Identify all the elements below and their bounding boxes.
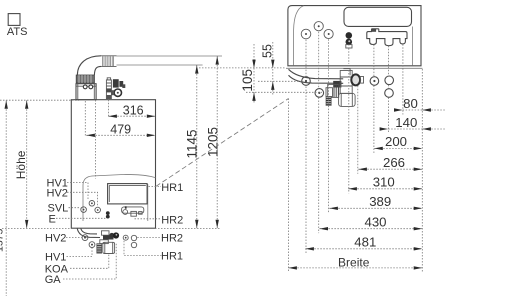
- dimension 200: [374, 147, 422, 149]
- svg-text:HR2: HR2: [161, 214, 183, 226]
- bottom view inner rounded rect: [344, 7, 412, 26]
- slider control: [122, 206, 144, 216]
- svg-text:HV2: HV2: [47, 187, 68, 199]
- svg-text:481: 481: [354, 235, 376, 250]
- svg-text:266: 266: [383, 155, 405, 170]
- small bit right: [360, 77, 363, 84]
- 479 extension line (flue centre): [84, 101, 86, 136]
- svg-text:140: 140: [395, 115, 417, 130]
- dimension 80: [403, 109, 446, 111]
- display window: [108, 184, 148, 204]
- bottom valve cluster: [100, 231, 119, 244]
- 316 extension line (valve centre): [108, 100, 110, 118]
- dimension line 1205: [216, 56, 218, 228]
- ribbed stub bottom view: [326, 97, 331, 106]
- leader SVL: [69, 207, 81, 209]
- projection diagonal to bottom view: [156, 99, 289, 187]
- svg-text:HR2: HR2: [161, 233, 183, 245]
- flue bottom projection line (1145 ref): [117, 64, 203, 66]
- circle 140b conn: [385, 89, 394, 98]
- left datum extension of bottom view: [199, 67, 286, 69]
- leader HV1: [67, 183, 88, 201]
- 105 dimension: [253, 44, 255, 103]
- mounting bracket top bump: [372, 29, 376, 32]
- bottom reference line: [2, 228, 221, 230]
- leader HR1 bottom: [124, 241, 162, 256]
- top valve group: white cylinder (316 ref): [106, 78, 111, 99]
- dimension 266: [358, 168, 422, 170]
- svg-text:389: 389: [369, 194, 391, 209]
- dimension 140: [388, 128, 446, 130]
- flue collar hatched band: [76, 75, 94, 83]
- flue corrugated section: [101, 56, 117, 67]
- svg-text:310: 310: [373, 175, 395, 190]
- leader HV2: [67, 192, 98, 206]
- mounting bracket: [367, 29, 407, 46]
- circle HR1 bottom: [123, 235, 128, 240]
- flue elbow: [77, 56, 101, 75]
- flue fan box: [76, 84, 96, 100]
- 55 dimension: [272, 42, 274, 95]
- leader HV2 bottom: [66, 236, 82, 238]
- svg-text:ATS: ATS: [7, 26, 28, 38]
- circle 200 conn: [370, 77, 379, 86]
- circle 430 gas: [315, 89, 324, 98]
- leader E: [56, 217, 105, 219]
- pipe circle 481: [302, 77, 311, 86]
- circle HR2 bottom: [131, 235, 136, 240]
- leader KOA: [70, 254, 109, 268]
- gas stub ribbed: [97, 244, 102, 254]
- svg-text:316: 316: [123, 104, 144, 118]
- svg-text:1205: 1205: [205, 127, 220, 157]
- dimension line 1145: [196, 65, 198, 228]
- dark cylinder 266 conn: [351, 74, 360, 85]
- extension line flue box right edge: [95, 100, 97, 179]
- leader HR2: [135, 218, 162, 220]
- bottom pipe elbow: [77, 228, 100, 237]
- dimension 430: [319, 228, 422, 230]
- left extension of bottom view: [288, 99, 290, 273]
- circle 430 conn: [314, 22, 323, 31]
- centre valve dark: [326, 81, 341, 98]
- svg-text:HV1: HV1: [45, 252, 66, 264]
- siphon bottom view: [339, 93, 356, 106]
- ATS symbol square: [8, 14, 20, 26]
- Hoehe dimension line: [26, 100, 28, 228]
- top valve group: dark fittings: [111, 79, 125, 96]
- dimension 310: [348, 188, 422, 190]
- leader HV1 bottom: [67, 248, 93, 257]
- bottom view outline: [288, 6, 421, 66]
- svg-text:430: 430: [364, 215, 386, 230]
- dark sensor E: [106, 211, 110, 215]
- flue top projection line (1205 ref): [117, 55, 223, 57]
- control panel inner outline: [83, 174, 156, 221]
- top reference line (height datum): [0, 99, 79, 101]
- svg-text:105: 105: [240, 69, 255, 92]
- svg-text:Breite: Breite: [338, 256, 370, 270]
- bottom view pipe: [289, 69, 344, 79]
- fitting block: [340, 69, 352, 94]
- svg-text:E: E: [49, 214, 56, 226]
- circle HV2 bottom: [82, 235, 88, 241]
- dimension 479: [86, 134, 155, 136]
- panel circle HV2: [95, 207, 101, 213]
- total height dimension line (left): [5, 100, 7, 296]
- svg-text:HV2: HV2: [45, 232, 66, 244]
- dark sensor pair: [346, 32, 353, 39]
- svg-text:55: 55: [260, 44, 274, 58]
- extension lines bottom view: [305, 40, 307, 254]
- dimension Breite: [288, 267, 422, 269]
- svg-text:1145: 1145: [185, 129, 200, 158]
- leader HR2 bottom: [137, 237, 161, 239]
- dimension 481: [305, 248, 422, 250]
- svg-text:479: 479: [110, 122, 131, 136]
- dimension 389: [329, 207, 422, 209]
- circle HV1 bottom: [89, 242, 95, 248]
- circle 389 conn: [324, 29, 333, 38]
- boiler outline (front view): [71, 100, 155, 229]
- svg-text:Höhe: Höhe: [14, 150, 28, 179]
- leader GA: [63, 244, 116, 280]
- leader HR1: [149, 186, 162, 188]
- svg-text:HR1: HR1: [161, 182, 183, 194]
- svg-text:GA: GA: [45, 274, 62, 286]
- svg-text:1575: 1575: [0, 228, 6, 252]
- dimension 316: [108, 115, 155, 117]
- circle HR1b bottom: [131, 242, 136, 247]
- svg-text:80: 80: [403, 96, 418, 111]
- circle 140 conn: [385, 76, 394, 85]
- circle 481 conn: [301, 29, 311, 39]
- panel circle HV1: [89, 201, 95, 207]
- siphon cup: [103, 242, 115, 253]
- panel circle SVL: [81, 207, 87, 213]
- svg-text:HR1: HR1: [161, 250, 183, 262]
- svg-text:200: 200: [385, 134, 407, 149]
